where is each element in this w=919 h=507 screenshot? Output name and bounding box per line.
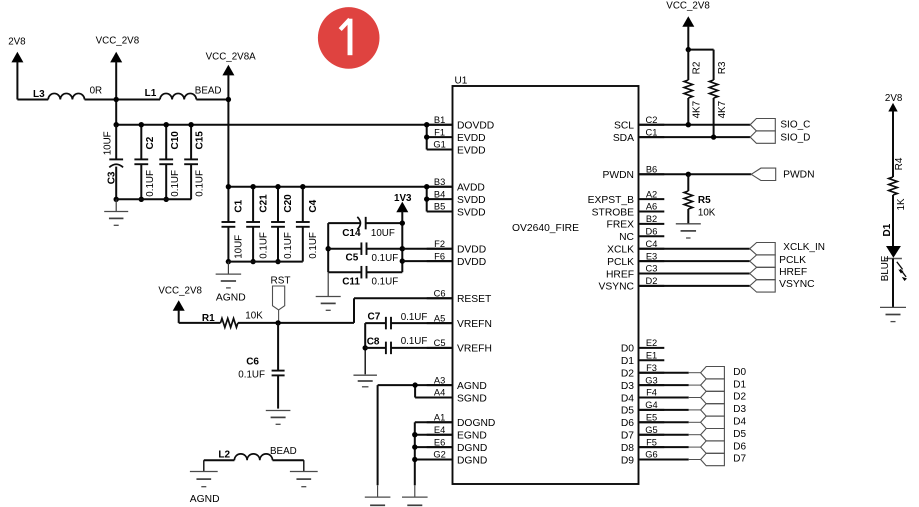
svg-text:B1: B1: [434, 115, 445, 125]
capacitor C14 10UF: [328, 222, 360, 224]
connector PWDN: [751, 168, 776, 180]
pin C5 VREFH (left): [427, 347, 453, 349]
capacitor C7 0.1UF: [365, 322, 386, 324]
svg-text:E6: E6: [434, 437, 445, 447]
pin E5 D6 (right): [639, 421, 665, 423]
svg-text:0.1UF: 0.1UF: [308, 232, 319, 259]
svg-text:D4: D4: [733, 417, 746, 428]
resistor R5 10K: [687, 174, 689, 191]
svg-text:PWDN: PWDN: [603, 170, 634, 181]
svg-text:G2: G2: [433, 450, 445, 460]
svg-text:F5: F5: [646, 437, 657, 447]
wire L2 right: [273, 459, 304, 461]
svg-text:0.1UF: 0.1UF: [283, 232, 294, 259]
svg-text:10UF: 10UF: [234, 235, 245, 259]
wire data D7: [639, 459, 689, 461]
svg-text:B3: B3: [434, 177, 445, 187]
pin C1 SDA (right): [639, 136, 665, 138]
wire SGND A4 tie: [415, 397, 452, 399]
junction A3/A4 tie: [412, 382, 417, 387]
svg-text:DVDD: DVDD: [457, 257, 486, 268]
svg-text:F4: F4: [646, 388, 657, 398]
svg-text:R2: R2: [692, 61, 703, 74]
junction C14/1V3: [400, 220, 405, 225]
svg-text:XCLK: XCLK: [607, 245, 634, 256]
capacitor C11 0.1UF: [328, 271, 361, 273]
ground below R5: [676, 223, 701, 225]
svg-text:PCLK: PCLK: [779, 255, 806, 266]
svg-text:SCL: SCL: [614, 121, 634, 132]
inductor L2: [234, 454, 272, 460]
svg-text:D5: D5: [733, 429, 746, 440]
pin A1 DOGND (left): [427, 421, 453, 423]
op-amp U1 outline (OV2640_FIRE chip body): [453, 86, 639, 484]
wire C14 group left tie: [327, 223, 329, 272]
ground below C3: [115, 199, 117, 211]
junction G2: [412, 457, 417, 462]
pin B2 FREX (right): [639, 223, 665, 225]
pin G4 D5 (right): [639, 409, 665, 411]
svg-text:G4: G4: [645, 400, 657, 410]
svg-text:L2: L2: [218, 449, 230, 460]
wire PWDN: [639, 173, 752, 175]
svg-text:D9: D9: [621, 455, 634, 466]
svg-text:R4: R4: [894, 157, 905, 170]
svg-text:AVDD: AVDD: [457, 183, 485, 194]
ground (L2 right): [290, 471, 318, 473]
svg-text:D3: D3: [621, 381, 634, 392]
pin E2 D0 (right): [639, 347, 665, 349]
svg-text:B2: B2: [646, 214, 657, 224]
svg-text:0.1UF: 0.1UF: [372, 277, 399, 288]
wire L1 to VCC_2V8A node: [196, 99, 228, 101]
svg-text:L1: L1: [145, 88, 157, 99]
junction F6 tie: [400, 258, 405, 263]
wire tie B3-B4-B5: [426, 187, 428, 212]
pin G1 EVDD (left): [427, 149, 453, 151]
svg-text:NC: NC: [619, 232, 634, 243]
pin B3 AVDD (left): [427, 186, 453, 188]
wire DVDD F2: [402, 248, 452, 250]
pin C4 XCLK (right): [639, 248, 665, 250]
red marker badge 1: [318, 7, 380, 69]
wire SCL: [639, 124, 751, 126]
wire DVDD F6: [402, 260, 452, 262]
svg-text:VSYNC: VSYNC: [599, 282, 635, 293]
svg-text:SDA: SDA: [613, 133, 634, 144]
wire RESET pin to corner: [354, 297, 453, 299]
wire DOGND tie down: [414, 422, 416, 485]
wire AGND down: [377, 385, 379, 485]
capacitor C21 0.1UF: [252, 187, 254, 222]
svg-text:C11: C11: [342, 277, 360, 288]
svg-text:OV2640_FIRE: OV2640_FIRE: [512, 223, 579, 234]
svg-text:C2: C2: [646, 115, 658, 125]
svg-text:0.1UF: 0.1UF: [401, 336, 428, 347]
power port 2V8 (top left): [11, 52, 23, 63]
ground below C7/C8: [353, 374, 377, 376]
svg-text:C21: C21: [258, 194, 269, 213]
svg-text:SGND: SGND: [457, 393, 487, 404]
ground below C14 block: [327, 272, 329, 296]
wire 1V3 tie (right of C14 block): [401, 223, 403, 272]
ground AGND (L2 left): [190, 471, 218, 473]
svg-text:F6: F6: [434, 251, 445, 261]
svg-text:0.1UF: 0.1UF: [145, 170, 156, 197]
ground (LED): [880, 306, 906, 308]
svg-text:10K: 10K: [245, 311, 263, 322]
svg-text:D8: D8: [621, 443, 634, 454]
svg-text:E2: E2: [646, 338, 657, 348]
connector comb XCLK_IN/PCLK/HREF/VSYNC: [750, 242, 776, 254]
junction C5/DVDD F2: [400, 246, 405, 251]
svg-text:B5: B5: [434, 202, 445, 212]
svg-text:DGND: DGND: [457, 443, 487, 454]
svg-text:VCC_2V8: VCC_2V8: [96, 36, 140, 47]
wire tie B1-F1-G1: [426, 125, 428, 150]
svg-text:10UF: 10UF: [103, 131, 114, 155]
svg-text:C1: C1: [234, 199, 245, 212]
wire DOVDD rail: [116, 124, 427, 126]
svg-text:C2: C2: [145, 136, 156, 149]
svg-text:RST: RST: [271, 276, 291, 287]
ground (digital GND): [402, 496, 428, 498]
svg-text:D7: D7: [733, 454, 746, 465]
svg-text:D6: D6: [646, 227, 658, 237]
wire VCC_2V8A to AVDD rail: [228, 186, 426, 188]
capacitor C10 0.1UF: [165, 125, 167, 160]
pin B5 SVDD (left): [427, 211, 453, 213]
junction PWDN/R5: [686, 172, 691, 177]
svg-text:2V8: 2V8: [8, 36, 26, 47]
junction VCC_2V8 / rail1: [114, 97, 119, 102]
pin E6 DGND (left): [427, 446, 453, 448]
svg-text:D6: D6: [621, 418, 634, 429]
ground AGND below C1: [227, 262, 229, 274]
resistor R1 10K: [221, 318, 238, 327]
svg-text:EVDD: EVDD: [457, 145, 486, 156]
svg-text:1V3: 1V3: [394, 193, 412, 204]
junction R3/SDA: [711, 134, 716, 139]
svg-text:HREF: HREF: [779, 267, 807, 278]
wire L2 left: [204, 459, 235, 461]
svg-text:R1: R1: [202, 313, 215, 324]
pin E4 EGND (left): [427, 434, 453, 436]
svg-text:D1: D1: [733, 379, 746, 390]
svg-text:C14: C14: [342, 228, 361, 239]
power port VCC_2V8A: [222, 65, 234, 76]
svg-text:E3: E3: [646, 251, 657, 261]
svg-text:D0: D0: [621, 344, 634, 355]
svg-text:DOVDD: DOVDD: [457, 121, 494, 132]
junction C8 tie: [363, 345, 368, 350]
resistor R2 4K7: [687, 50, 689, 80]
svg-text:XCLK_IN: XCLK_IN: [783, 242, 825, 253]
wire PCLK: [639, 260, 750, 262]
svg-text:G6: G6: [645, 450, 657, 460]
pin F1 EVDD (left): [427, 136, 453, 138]
pin G2 DGND (left): [427, 459, 453, 461]
svg-text:D2: D2: [646, 276, 658, 286]
svg-text:C6: C6: [434, 289, 446, 299]
wire data D6: [639, 446, 689, 448]
connector SIO_C: [750, 119, 775, 131]
svg-text:D2: D2: [733, 392, 746, 403]
pin C6 RESET (left): [427, 297, 453, 299]
svg-text:C7: C7: [368, 311, 381, 322]
svg-text:SIO_D: SIO_D: [780, 133, 810, 144]
svg-text:DVDD: DVDD: [457, 245, 486, 256]
capacitor C3 10UF: [115, 125, 117, 160]
svg-text:U1: U1: [455, 75, 468, 86]
svg-text:C3: C3: [107, 171, 118, 184]
svg-text:AGND: AGND: [216, 293, 246, 304]
svg-text:SIO_C: SIO_C: [780, 120, 810, 131]
svg-text:A1: A1: [434, 413, 445, 423]
wire cap group B bottom rail: [228, 261, 302, 263]
wire EGND E4: [415, 434, 453, 436]
wire data D1: [639, 384, 689, 386]
LED light arrows: [897, 262, 903, 270]
wire SDA: [639, 136, 751, 138]
power port VCC_2V8 (top right): [682, 16, 694, 27]
wire data D5: [639, 434, 689, 436]
svg-text:C20: C20: [283, 194, 294, 213]
svg-text:E5: E5: [646, 413, 657, 423]
pin E1 D1 (right): [639, 359, 665, 361]
svg-text:VCC_2V8: VCC_2V8: [666, 0, 710, 11]
pin E3 PCLK (right): [639, 260, 665, 262]
wire pull-up top bar: [688, 49, 713, 51]
svg-text:DOGND: DOGND: [457, 418, 495, 429]
pin A3 AGND (left): [427, 384, 453, 386]
capacitor C6 0.1UF: [277, 323, 279, 371]
svg-text:AGND: AGND: [190, 494, 220, 505]
pin B4 SVDD (left): [427, 198, 453, 200]
junction RST node: [275, 320, 280, 325]
connector comb D0-D7: [701, 366, 725, 378]
svg-text:2V8: 2V8: [885, 93, 903, 104]
svg-text:BEAD: BEAD: [195, 85, 222, 96]
diode D1 BLUE (LED): [886, 246, 901, 258]
svg-text:E1: E1: [646, 351, 657, 361]
svg-text:PCLK: PCLK: [607, 257, 634, 268]
svg-text:VCC_2V8: VCC_2V8: [158, 286, 202, 297]
inductor L1: [160, 93, 196, 99]
pin F3 D2 (right): [639, 372, 665, 374]
svg-text:E4: E4: [434, 425, 445, 435]
svg-text:D5: D5: [621, 406, 634, 417]
svg-text:C8: C8: [367, 336, 380, 347]
capacitor C4 0.1UF: [302, 187, 304, 222]
svg-text:SVDD: SVDD: [457, 195, 486, 206]
capacitor C20 0.1UF: [277, 187, 279, 222]
svg-text:4K7: 4K7: [717, 101, 728, 118]
svg-text:VSYNC: VSYNC: [779, 279, 815, 290]
svg-text:D2: D2: [621, 369, 634, 380]
capacitor C15 0.1UF: [190, 125, 192, 160]
svg-text:R3: R3: [717, 61, 728, 74]
capacitor C2 0.1UF: [140, 125, 142, 160]
wire XCLK: [639, 248, 750, 250]
wire data D0: [639, 372, 689, 374]
junction E6: [412, 444, 417, 449]
wire 2V8 to L3: [17, 99, 48, 101]
pin C3 HREF (right): [639, 273, 665, 275]
capacitor C1 10UF: [227, 187, 229, 222]
svg-text:D1: D1: [621, 356, 634, 367]
wire data D3: [639, 409, 689, 411]
inductor L3: [48, 93, 84, 99]
wire data D2: [639, 397, 689, 399]
junction VCC_2V8A / rail1: [226, 97, 231, 102]
svg-text:C4: C4: [308, 199, 319, 212]
svg-text:DGND: DGND: [457, 455, 487, 466]
svg-text:0.1UF: 0.1UF: [195, 170, 206, 197]
wire VCC_2V8 node to L1: [116, 99, 160, 101]
svg-text:10UF: 10UF: [371, 228, 395, 239]
svg-text:EXPST_B: EXPST_B: [588, 195, 634, 206]
connector SIO_D: [750, 131, 775, 143]
wire AGND A3: [378, 384, 453, 386]
junction E4: [412, 432, 417, 437]
pin D2 VSYNC (right): [639, 285, 665, 287]
svg-text:HREF: HREF: [606, 269, 634, 280]
svg-text:B4: B4: [434, 189, 445, 199]
svg-text:EGND: EGND: [457, 431, 487, 442]
svg-text:R5: R5: [698, 195, 711, 206]
wire L3 to VCC_2V8 node: [85, 99, 117, 101]
svg-text:D1: D1: [882, 223, 893, 236]
svg-text:VCC_2V8A: VCC_2V8A: [206, 52, 257, 63]
svg-text:L3: L3: [33, 89, 45, 100]
svg-text:C3: C3: [646, 264, 658, 274]
wire HREF: [639, 273, 750, 275]
svg-text:STROBE: STROBE: [592, 207, 634, 218]
svg-text:BLUE: BLUE: [880, 255, 891, 281]
wire DGND G2: [415, 459, 453, 461]
svg-text:F1: F1: [434, 127, 445, 137]
pin D6 NC (right): [639, 235, 665, 237]
pin A5 VREFN (left): [427, 322, 453, 324]
svg-text:A2: A2: [646, 189, 657, 199]
svg-text:D7: D7: [621, 431, 634, 442]
power port 1V3: [396, 202, 408, 213]
pin G3 D3 (right): [639, 384, 665, 386]
svg-text:VREFH: VREFH: [457, 344, 492, 355]
svg-text:F3: F3: [646, 363, 657, 373]
svg-text:C15: C15: [195, 131, 206, 150]
wire C7/C8 left tie: [364, 323, 366, 348]
svg-text:0R: 0R: [90, 86, 103, 97]
svg-text:C1: C1: [646, 127, 658, 137]
junction R2/SCL: [686, 122, 691, 127]
capacitor C8 0.1UF: [365, 347, 386, 349]
junction VCC_2V8 / DOVDD rail: [114, 122, 119, 127]
power port 2V8 (LED): [888, 103, 897, 112]
svg-text:0.1UF: 0.1UF: [258, 232, 269, 259]
svg-text:A3: A3: [434, 375, 445, 385]
pin C2 SCL (right): [639, 124, 665, 126]
wire DOGND A1: [415, 421, 453, 423]
svg-text:D3: D3: [733, 404, 746, 415]
svg-text:B6: B6: [646, 165, 657, 175]
svg-text:C4: C4: [646, 239, 658, 249]
pin F4 D4 (right): [639, 397, 665, 399]
svg-text:BEAD: BEAD: [270, 446, 297, 457]
svg-text:C6: C6: [246, 357, 259, 368]
pin G6 D9 (right): [639, 459, 665, 461]
pin A2 EXPST_B (right): [639, 198, 665, 200]
svg-text:F2: F2: [434, 239, 445, 249]
svg-text:FREX: FREX: [607, 220, 635, 231]
svg-text:A6: A6: [646, 202, 657, 212]
resistor R3 4K7: [713, 50, 715, 80]
svg-text:VREFN: VREFN: [457, 319, 492, 330]
wire data D4: [639, 421, 689, 423]
pin F6 DVDD (left): [427, 260, 453, 262]
port RST (pentagon): [273, 286, 285, 310]
pin B1 DOVDD (left): [427, 124, 453, 126]
svg-text:1K: 1K: [896, 198, 907, 210]
svg-text:D0: D0: [733, 367, 746, 378]
svg-text:C5: C5: [434, 338, 446, 348]
svg-text:D6: D6: [733, 441, 746, 452]
svg-text:G5: G5: [645, 425, 657, 435]
svg-text:A4: A4: [434, 388, 445, 398]
ground below C6: [266, 410, 291, 412]
svg-text:0.1UF: 0.1UF: [238, 369, 265, 380]
svg-text:0.1UF: 0.1UF: [170, 170, 181, 197]
power port VCC_2V8 (top left): [110, 52, 122, 63]
wire LED to ground: [892, 259, 894, 308]
svg-text:C5: C5: [346, 252, 359, 263]
svg-text:0.1UF: 0.1UF: [401, 312, 428, 323]
svg-text:10K: 10K: [698, 208, 716, 219]
wire DGND E6: [415, 446, 453, 448]
svg-text:EVDD: EVDD: [457, 133, 486, 144]
wire cap group A bottom rail: [116, 198, 191, 200]
pin F2 DVDD (left): [427, 248, 453, 250]
svg-text:A5: A5: [434, 313, 445, 323]
pin G5 D7 (right): [639, 434, 665, 436]
wire RST row: [179, 322, 221, 324]
pin A6 STROBE (right): [639, 211, 665, 213]
svg-text:PWDN: PWDN: [783, 170, 814, 181]
wire VSYNC: [639, 285, 750, 287]
resistor R4 1K: [889, 177, 897, 195]
svg-text:G3: G3: [645, 375, 657, 385]
wire 2V8 to R4: [892, 111, 894, 177]
capacitor C5 0.1UF: [328, 248, 361, 250]
svg-text:0.1UF: 0.1UF: [372, 253, 399, 264]
pin F5 D8 (right): [639, 446, 665, 448]
ground (AGND/SGND): [365, 496, 391, 498]
power port VCC_2V8 (reset pull-up): [173, 300, 185, 311]
svg-text:C10: C10: [170, 131, 181, 150]
svg-text:AGND: AGND: [457, 381, 487, 392]
svg-text:RESET: RESET: [457, 294, 492, 305]
svg-text:G1: G1: [433, 140, 445, 150]
svg-text:4K7: 4K7: [692, 101, 703, 118]
pin B6 PWDN (right): [639, 173, 665, 175]
svg-text:SVDD: SVDD: [457, 207, 486, 218]
pin A4 SGND (left): [427, 397, 453, 399]
svg-text:D4: D4: [621, 393, 634, 404]
